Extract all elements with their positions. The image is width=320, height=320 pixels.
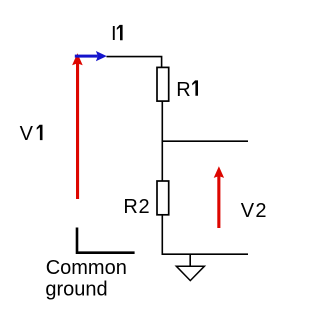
ground stub wire (189, 254, 191, 266)
resistor R1 (157, 67, 169, 101)
svg-text:V2: V2 (241, 200, 268, 222)
wire top: from I1 arrow tip to R1 top (107, 57, 162, 68)
svg-text:ground: ground (45, 279, 107, 301)
ground symbol (open triangle) (176, 266, 204, 280)
wire: bottom rail (162, 253, 249, 255)
svg-text:R: R (176, 79, 190, 101)
wire: R1 bottom to R2 top (161, 101, 163, 181)
wire: middle tap to the right (162, 140, 248, 142)
svg-text:R2: R2 (123, 196, 150, 218)
svg-text:I: I (111, 23, 117, 45)
svg-text:Common: Common (46, 257, 127, 279)
common-ground corner bracket (77, 228, 135, 253)
arrow I1 (blue, right) (75, 51, 107, 61)
arrow V1 (red, up) (72, 53, 83, 199)
svg-text:V: V (20, 123, 34, 145)
arrow V2 (red, up) (214, 166, 224, 228)
wire: R2 bottom to bottom rail (161, 215, 163, 254)
resistor R2 (157, 181, 169, 215)
